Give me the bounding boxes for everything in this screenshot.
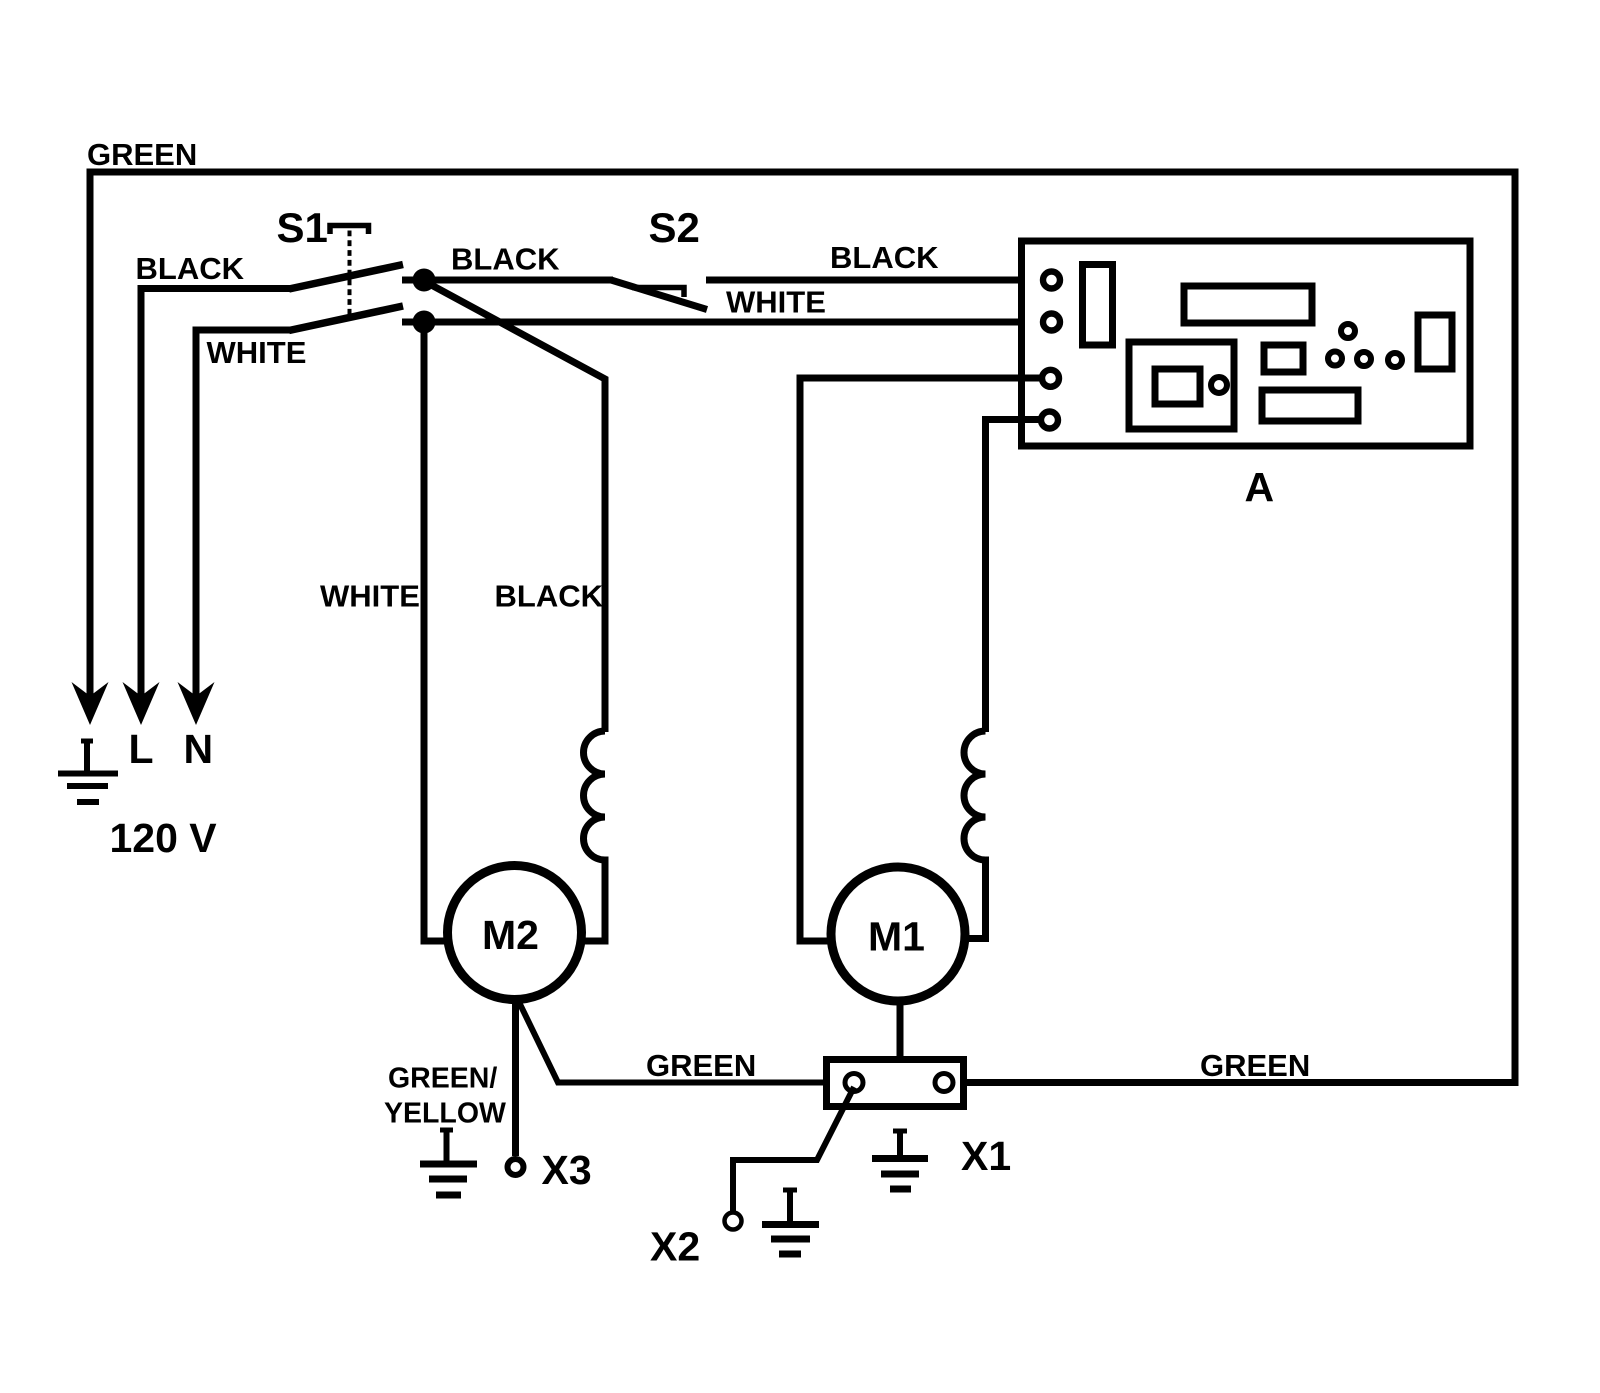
small rect: [1264, 345, 1303, 372]
motor M1: [831, 867, 965, 1001]
svg-text:YELLOW: YELLOW: [384, 1098, 506, 1130]
wire WHITE node2 to M2: [424, 322, 449, 941]
svg-text:GREEN: GREEN: [1200, 1048, 1310, 1083]
svg-text:120 V: 120 V: [110, 815, 218, 861]
svg-text:BLACK: BLACK: [136, 251, 245, 286]
pad circle mid: [1357, 352, 1371, 366]
wire WHITE node2 to A pin2: [424, 319, 1046, 326]
terminal block X1: [827, 1060, 964, 1107]
wire BLACK node1 to S2: [424, 277, 613, 284]
wire BLACK S2 to A pin1: [706, 277, 1046, 284]
svg-text:M1: M1: [868, 914, 925, 960]
wire GREEN left to X1 block: [558, 1080, 826, 1086]
ground (mains earth): [58, 741, 118, 802]
ground (green/yellow): [420, 1130, 477, 1195]
wire GREEN border loop (ground net): [90, 172, 1515, 1083]
wire BLACK input (L): [141, 289, 290, 705]
pin 2: [1043, 314, 1060, 331]
arrow N input: [178, 682, 215, 725]
pin 1: [1043, 272, 1060, 289]
wire X1 to X2: [733, 1087, 854, 1212]
arrow L input: [123, 682, 160, 725]
motor M2: [448, 866, 582, 1000]
svg-text:S2: S2: [649, 204, 700, 251]
ic horizontal rect bottom: [1262, 390, 1358, 421]
inductor M2 coil: [580, 731, 605, 941]
svg-text:GREEN: GREEN: [87, 137, 197, 172]
terminal X3: [508, 1159, 524, 1175]
ground (X2): [762, 1190, 819, 1254]
svg-text:WHITE: WHITE: [726, 285, 826, 320]
inductor M1 coil: [964, 731, 986, 939]
svg-text:L: L: [129, 726, 154, 772]
pad circle top: [1341, 324, 1355, 338]
pad circle right: [1388, 353, 1402, 367]
svg-text:X3: X3: [542, 1147, 592, 1193]
pcb A: [1022, 241, 1471, 446]
pin 4: [1041, 412, 1058, 429]
wire BLACK node1 to M2 coil: [424, 281, 605, 732]
svg-text:WHITE: WHITE: [207, 335, 307, 370]
switch S1: [277, 204, 404, 331]
ground (X1): [872, 1131, 928, 1189]
node 2 (white junction): [402, 319, 424, 326]
svg-text:BLACK: BLACK: [830, 240, 939, 275]
svg-text:S1: S1: [277, 204, 328, 251]
svg-text:M2: M2: [482, 912, 539, 958]
wire A pin4 to M1 coil: [986, 420, 1045, 733]
svg-text:BLACK: BLACK: [495, 579, 604, 614]
relay circle: [1211, 377, 1227, 393]
switch S2: [611, 204, 707, 310]
wire M1 to X1 block: [897, 998, 904, 1059]
svg-text:X2: X2: [650, 1224, 700, 1270]
arrow ground input: [72, 682, 109, 725]
ic horizontal rect top: [1184, 286, 1312, 323]
terminal X2: [725, 1213, 742, 1230]
pad circle left: [1328, 352, 1342, 366]
pin 3: [1042, 370, 1059, 387]
ic vertical rect: [1083, 265, 1113, 346]
node 1 (black junction): [402, 277, 424, 284]
relay inner rect: [1155, 369, 1200, 404]
wire M2 to GREEN bus: [518, 1000, 826, 1083]
svg-text:GREEN: GREEN: [646, 1048, 756, 1083]
svg-text:WHITE: WHITE: [320, 579, 420, 614]
svg-text:BLACK: BLACK: [451, 242, 560, 277]
relay square: [1129, 342, 1234, 429]
svg-text:N: N: [184, 726, 214, 772]
svg-text:A: A: [1245, 464, 1275, 510]
wire M2 to X3: [512, 999, 519, 1156]
wire A pin3 to M1: [800, 378, 1044, 941]
svg-text:X1: X1: [961, 1133, 1011, 1179]
wire WHITE input (N): [196, 330, 290, 704]
right vertical rect: [1418, 315, 1452, 369]
svg-text:GREEN/: GREEN/: [388, 1063, 497, 1095]
